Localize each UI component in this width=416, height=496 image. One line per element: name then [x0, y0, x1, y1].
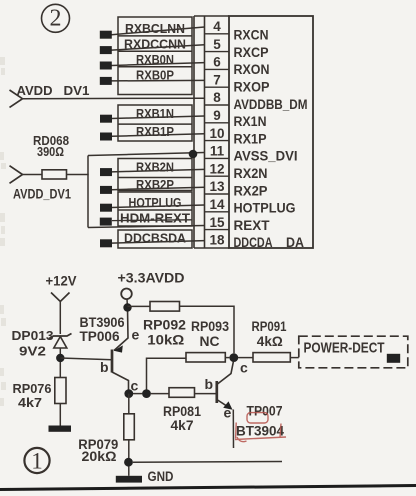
svg-text:e: e	[224, 405, 232, 421]
section circle 1	[24, 448, 49, 473]
zener diode DP013	[49, 334, 72, 339]
wire strike through HDM-REXT	[112, 219, 192, 222]
net label group box 4 (HOTPLUG,HDM-REXT)	[118, 192, 192, 226]
svg-text:RX2N: RX2N	[234, 166, 268, 181]
svg-text:AVSS_DVI: AVSS_DVI	[234, 149, 298, 164]
pad square RXB1P	[100, 133, 112, 141]
svg-text:AVDD: AVDD	[17, 83, 53, 98]
svg-text:15: 15	[209, 215, 225, 230]
svg-text:DP013: DP013	[12, 328, 54, 343]
svg-text:e: e	[132, 327, 140, 343]
svg-text:RXCP: RXCP	[234, 45, 269, 60]
svg-text:AVDD_DV1: AVDD_DV1	[13, 186, 71, 201]
Q1 emitter arrow (PNP)	[114, 345, 123, 352]
svg-text:BT3906: BT3906	[80, 315, 125, 330]
svg-text:RP092: RP092	[143, 318, 186, 333]
resistor RD068 body	[42, 170, 67, 179]
Q2 emitter wire	[217, 400, 231, 409]
junction dot zener/base	[56, 354, 64, 362]
svg-text:RXB0N: RXB0N	[136, 52, 174, 67]
svg-text:HDM-REXT: HDM-REXT	[120, 211, 190, 226]
svg-text:12: 12	[209, 161, 224, 176]
pad square HOTPLUG	[100, 204, 112, 212]
pin ladder separators	[205, 34, 230, 230]
svg-text:b: b	[100, 359, 109, 375]
junction dot pin 11 wire	[189, 150, 198, 159]
wire pad to pin 13	[112, 187, 205, 190]
wire RD068 to vertical	[67, 174, 89, 176]
svg-text:RP093: RP093	[191, 319, 229, 334]
wire b node	[133, 393, 142, 395]
wire +12V stem	[59, 302, 61, 335]
svg-text:RXON: RXON	[234, 62, 270, 77]
pad square RXB0N	[100, 62, 112, 70]
svg-text:+3.3AVDD: +3.3AVDD	[118, 271, 185, 286]
wire node to RP092	[128, 305, 151, 307]
wire RP092 right	[180, 306, 235, 353]
wire pad to pin 6	[112, 63, 205, 66]
svg-text:TP006: TP006	[80, 329, 120, 344]
wire c node to RP091	[238, 357, 253, 359]
wire pad to pin 5	[112, 45, 205, 50]
svg-text:HOTPLUG: HOTPLUG	[234, 201, 296, 216]
Q1 collector wire	[112, 372, 129, 392]
svg-text:RXOP: RXOP	[234, 80, 270, 95]
junction dot b1	[124, 389, 133, 398]
wire to pin 15 REXT	[88, 226, 205, 228]
svg-text:DA: DA	[286, 235, 304, 250]
svg-text:2: 2	[50, 6, 62, 32]
net label group box 5 (DDCBSDA)	[118, 230, 192, 248]
svg-text:14: 14	[209, 197, 225, 212]
wire pad to pin 9	[112, 116, 205, 119]
svg-text:RP076: RP076	[13, 381, 52, 396]
wire AVDD DV1 to pin 8	[23, 97, 205, 100]
svg-text:RXB2P: RXB2P	[136, 177, 174, 192]
pad square HDM-REXT on REXT rail	[100, 218, 112, 226]
svg-text:RXB0P: RXB0P	[136, 67, 174, 82]
svg-text:4k7: 4k7	[171, 418, 194, 433]
svg-text:4kΩ: 4kΩ	[257, 334, 283, 349]
terminal circle +3.3AVDD	[121, 289, 132, 300]
transistor Q2 BT3904 base bar	[215, 381, 218, 403]
page bottom rule	[0, 486, 416, 490]
wire terminal down	[126, 299, 129, 308]
POWER-DECT pad square	[387, 354, 400, 363]
svg-text:DDCBSDA: DDCBSDA	[124, 231, 187, 246]
wire RP091 to POWER-DECT	[290, 357, 299, 359]
wire b2 to RP081	[151, 393, 169, 395]
svg-text:HOTPLUG: HOTPLUG	[129, 195, 182, 210]
svg-text:b: b	[205, 376, 214, 392]
svg-text:RX1P: RX1P	[234, 131, 267, 146]
wire pad to pin 12	[112, 169, 205, 172]
pad square RXB2P	[100, 186, 112, 194]
pad square RXB2N	[100, 168, 112, 176]
svg-text:13: 13	[209, 179, 225, 194]
svg-text:RXCN: RXCN	[234, 28, 269, 43]
pin-number ladder frame	[194, 16, 229, 248]
wire c node to RP079	[128, 394, 130, 414]
wire zener to junction	[59, 348, 61, 378]
wire pad to pin 18	[112, 241, 205, 244]
svg-text:10: 10	[209, 126, 224, 141]
ground bar bottom	[116, 476, 142, 483]
svg-text:NC: NC	[200, 334, 220, 349]
pad square RXB1N	[100, 115, 112, 123]
resistor RP091 body	[253, 353, 290, 362]
svg-text:1: 1	[31, 448, 43, 473]
svg-text:GND: GND	[148, 469, 174, 484]
svg-text:RP091: RP091	[252, 319, 287, 334]
svg-text:RX1N: RX1N	[234, 114, 267, 129]
net label group box 1 (RXBCLNN..RXB0P)	[118, 17, 192, 95]
svg-text:8: 8	[213, 90, 221, 105]
wire RP093 left leg	[147, 358, 187, 391]
resistor RP076 body	[55, 378, 66, 404]
pad square RXB0P	[100, 77, 112, 85]
svg-text:REXT: REXT	[234, 218, 271, 233]
wire pad to pin 4	[112, 27, 205, 35]
svg-text:POWER-DECT: POWER-DECT	[304, 339, 385, 356]
Q2 emitter arrow (NPN)	[223, 401, 232, 409]
pad square RXDCCNN	[100, 46, 112, 54]
junction dot emitter node	[123, 303, 131, 311]
svg-text:RXBCLNN: RXBCLNN	[125, 21, 185, 36]
wire vertical to REXT rail	[87, 156, 89, 228]
red pen scribble around labels	[235, 413, 286, 442]
svg-text:RXB2N: RXB2N	[136, 159, 174, 174]
svg-text:RX2P: RX2P	[234, 183, 268, 198]
resistor RP081 body	[169, 388, 195, 398]
svg-text:9V2: 9V2	[19, 343, 46, 358]
transistor Q1 BT3906 base bar	[111, 350, 114, 373]
svg-text:RXB1P: RXB1P	[136, 124, 174, 139]
svg-text:10kΩ: 10kΩ	[147, 333, 184, 348]
pad square DDCBSDA	[100, 239, 112, 247]
resistor RP079 body	[124, 414, 135, 440]
svg-text:11: 11	[210, 144, 225, 159]
pad square RXBCLNN	[100, 31, 112, 39]
node AVDD DV1 arrow	[10, 90, 23, 107]
svg-text:RXDCCNN: RXDCCNN	[124, 37, 186, 52]
svg-text:RXB1N: RXB1N	[136, 106, 174, 121]
svg-text:9: 9	[213, 108, 221, 123]
svg-text:4: 4	[213, 19, 221, 34]
wire bottom rail	[133, 461, 282, 464]
Q1 emitter wire	[114, 308, 128, 351]
wire pad to pin 14	[112, 205, 205, 208]
wire pad to pin 7	[112, 79, 205, 82]
svg-text:20kΩ: 20kΩ	[82, 449, 117, 464]
svg-text:+12V: +12V	[46, 274, 77, 289]
wire RP081 to Q2 base	[195, 393, 216, 395]
svg-text:4k7: 4k7	[18, 395, 42, 410]
net label group box 2 (RXB1N,RXB1P)	[118, 105, 192, 141]
IC U1 body	[229, 16, 313, 248]
svg-text:RP081: RP081	[163, 404, 201, 419]
wire to pin 11 AVSS_DVI	[88, 153, 205, 156]
ground bar left	[49, 426, 72, 432]
net label group box 3 (RXB2N,RXB2P)	[118, 159, 192, 191]
svg-text:DDCDA: DDCDA	[234, 235, 273, 250]
resistor RP093 body	[186, 353, 225, 362]
svg-text:390Ω: 390Ω	[37, 144, 64, 159]
power +12V arrow	[51, 293, 70, 302]
svg-text:5: 5	[213, 37, 221, 52]
wire base Q1	[60, 358, 112, 360]
svg-text:BT3904: BT3904	[236, 423, 284, 438]
wire RP093 to c node	[225, 357, 229, 359]
section circle 2	[42, 4, 70, 32]
POWER-DECT box	[299, 336, 408, 368]
wire arrow to RD068	[23, 174, 43, 176]
junction dot b2	[142, 389, 151, 398]
resistor RP092 body	[150, 302, 180, 312]
wire RP076 to ground	[59, 404, 61, 427]
Q2 collector wire	[217, 362, 234, 385]
junction dot c node	[229, 353, 238, 362]
svg-text:TP007: TP007	[247, 403, 283, 418]
junction dot RP079 bottom	[124, 458, 133, 467]
svg-text:DV1: DV1	[64, 83, 90, 98]
wire RP079 down	[128, 440, 130, 476]
node AVDD_DV1 arrow	[10, 166, 23, 184]
wire pad to pin 10	[112, 134, 205, 137]
svg-text:18: 18	[209, 233, 225, 248]
svg-text:AVDDBB_DM: AVDDBB_DM	[234, 97, 308, 112]
svg-text:7: 7	[213, 72, 221, 87]
Q2 emitter down wire	[232, 410, 234, 449]
svg-text:6: 6	[213, 55, 221, 70]
faint print bleed, left margin	[0, 57, 6, 406]
svg-text:c: c	[240, 360, 248, 376]
